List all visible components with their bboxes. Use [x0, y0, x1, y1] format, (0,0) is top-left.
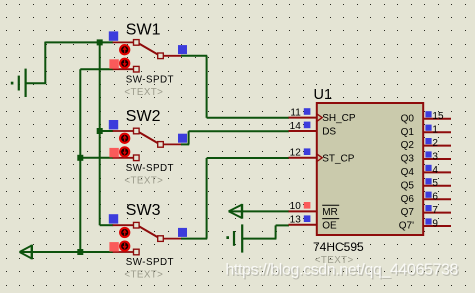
SW1 lower state square (red)	[109, 59, 118, 68]
pin 11 SH_CP stub	[289, 117, 317, 119]
SW1 upper state square (blue)	[109, 31, 118, 40]
svg-text:SW1: SW1	[126, 21, 161, 38]
SW2 pole state square (blue)	[178, 134, 187, 143]
SW2 actuator (up)	[120, 134, 129, 143]
pin 9 state square	[425, 218, 431, 224]
svg-text:2: 2	[432, 138, 438, 149]
svg-text:Q7: Q7	[401, 207, 415, 218]
wire to ST_CP pin	[207, 157, 289, 159]
svg-text:OE: OE	[322, 220, 337, 231]
pin 11 state square	[304, 108, 311, 115]
svg-text:DS: DS	[322, 127, 336, 138]
pin 14 state square	[304, 122, 311, 129]
svg-text:SH_CP: SH_CP	[322, 113, 356, 124]
svg-text:https://blog.csdn.net/qq_44065: https://blog.csdn.net/qq_44065738	[225, 262, 458, 279]
junction rail B / SW2 lower throw	[77, 155, 83, 161]
svg-text:9: 9	[432, 218, 438, 229]
pin 10 state square	[304, 202, 311, 209]
SW3 actuator (up)	[120, 228, 129, 237]
svg-text:Q0: Q0	[401, 113, 415, 124]
wire SW2 pole run	[181, 143, 189, 145]
wire to OE pin	[276, 224, 289, 226]
svg-text:3: 3	[432, 151, 438, 162]
svg-text:<TEXT>: <TEXT>	[124, 87, 163, 98]
junction rail B / ground wire	[77, 249, 83, 255]
SW3 lower state square (red)	[109, 242, 118, 251]
wire SW2 up to DS row	[188, 131, 190, 144]
svg-text:4: 4	[432, 165, 438, 176]
pin 9 Q7' stub	[423, 225, 451, 227]
battery BAT2 (power symbol at OE)	[226, 224, 242, 252]
SW2 lower state square (red)	[109, 148, 118, 157]
wire vertical up to top rail	[44, 42, 46, 84]
clock wedge SH_CP	[316, 113, 322, 121]
ground (arrow terminal, bottom left)	[20, 245, 32, 258]
SW2 upper state square (blue)	[109, 120, 118, 129]
svg-text:U1: U1	[314, 87, 333, 103]
SW1 actuator (down)	[120, 59, 129, 68]
svg-text:ST_CP: ST_CP	[322, 153, 355, 164]
svg-text:Q3: Q3	[401, 154, 415, 165]
ground (arrow terminal at MR)	[229, 205, 242, 218]
wire rail B vertical	[79, 69, 81, 252]
wire ground arrow to rail B	[20, 251, 80, 253]
wire rail B bend to SW1 lower throw	[80, 68, 113, 70]
pin 6 state square	[425, 192, 431, 198]
wire rail A to SW2 upper throw	[100, 130, 114, 132]
svg-text:MR: MR	[322, 207, 338, 218]
SW3 upper throw terminal	[134, 222, 140, 228]
svg-text:15: 15	[432, 111, 444, 122]
wire arrow to MR pin	[229, 210, 289, 212]
svg-text:SW-SPDT: SW-SPDT	[126, 74, 174, 85]
svg-text:Q6: Q6	[401, 194, 415, 205]
pin 1 Q1 stub	[423, 131, 451, 133]
pin 7 Q7 stub	[423, 212, 451, 214]
battery BAT1 (power symbol, left)	[11, 69, 26, 97]
wire rail A bend to SW3 upper throw	[100, 224, 114, 226]
svg-text:6: 6	[432, 192, 438, 203]
SW1 pole state square (blue)	[178, 45, 187, 54]
SW2 actuator (down)	[120, 147, 129, 156]
svg-text:10: 10	[290, 201, 302, 212]
svg-text:74HC595: 74HC595	[313, 240, 364, 254]
SW2 lower throw terminal	[134, 155, 140, 161]
SW1 lower throw terminal	[134, 66, 140, 72]
wire battery to bend	[26, 82, 47, 84]
wire rail B to SW2 lower throw	[80, 157, 113, 159]
junction at SW2 upper throw	[97, 128, 103, 134]
svg-text:Q5: Q5	[401, 180, 415, 191]
svg-text:SW-SPDT: SW-SPDT	[126, 163, 174, 174]
switch SW2 (SW-SPDT)	[113, 131, 182, 158]
pin 3 Q3 stub	[423, 158, 451, 160]
SW3 upper state square (blue)	[109, 214, 118, 223]
pin 1 state square	[425, 125, 431, 131]
svg-text:Q7': Q7'	[399, 221, 414, 232]
SW2 pole terminal	[158, 142, 164, 148]
op-amp U1 74HC595 body	[317, 103, 423, 235]
wire to SH_CP pin	[207, 117, 289, 119]
wire junction to SW3 lower throw	[80, 251, 113, 253]
switch SW1 (SW-SPDT)	[113, 42, 182, 69]
pin 4 Q4 stub	[423, 171, 451, 173]
wire SW3 pole run	[181, 238, 207, 240]
svg-text:1: 1	[432, 125, 438, 136]
wire rail A vertical	[99, 42, 101, 225]
svg-text:Q2: Q2	[401, 140, 415, 151]
pin 6 Q6 stub	[423, 198, 451, 200]
svg-text:Q1: Q1	[401, 127, 415, 138]
pin 5 state square	[425, 178, 431, 184]
SW1 upper throw terminal	[134, 40, 140, 46]
overline OE	[322, 218, 339, 220]
svg-text:7: 7	[432, 205, 438, 216]
overline MR	[322, 204, 339, 206]
svg-text:<TEXT>: <TEXT>	[124, 270, 163, 281]
svg-text:11: 11	[290, 107, 301, 118]
wire SW1 pole run	[181, 55, 207, 57]
wire to DS pin	[189, 130, 289, 132]
clock wedge ST_CP	[316, 154, 322, 162]
pin 2 Q2 stub	[423, 145, 451, 147]
switch SW3 (SW-SPDT)	[113, 225, 182, 252]
SW3 pole terminal	[158, 236, 164, 242]
SW1 pole terminal	[158, 53, 164, 59]
svg-text:13: 13	[290, 215, 302, 226]
svg-text:SW-SPDT: SW-SPDT	[126, 257, 174, 268]
pin 10 MR stub	[289, 210, 317, 212]
wire up to OE row	[275, 225, 277, 238]
SW3 lower throw terminal	[134, 249, 140, 255]
SW2 upper throw terminal	[134, 128, 140, 134]
wire top rail to SW1 upper throw	[45, 41, 113, 43]
wire SW3 up to ST_CP row	[206, 158, 208, 239]
pin 5 Q5 stub	[423, 185, 451, 187]
pin 13 OE stub	[289, 224, 317, 226]
SW1 actuator (up)	[120, 45, 129, 54]
pin 15 Q0 stub	[423, 118, 451, 120]
svg-text:12: 12	[290, 148, 302, 159]
svg-text:<TEXT>: <TEXT>	[124, 175, 163, 186]
pin 4 state square	[425, 165, 431, 171]
pin 3 state square	[425, 151, 431, 157]
wire battery to bend	[242, 238, 276, 240]
pin 12 state square	[304, 148, 311, 155]
pin 14 DS stub	[289, 130, 317, 132]
pin 2 state square	[425, 138, 431, 144]
junction at SW1 upper throw	[97, 39, 103, 45]
SW3 pole state square (blue)	[178, 228, 187, 237]
pin 13 state square	[304, 215, 311, 222]
pin 12 ST_CP stub	[289, 157, 317, 159]
svg-text:5: 5	[432, 178, 438, 189]
pin 15 state square	[425, 111, 431, 117]
svg-text:Q4: Q4	[401, 167, 415, 178]
svg-text:SW3: SW3	[126, 202, 161, 219]
wire SW1 down to SH_CP row	[206, 56, 208, 118]
svg-text:SW2: SW2	[126, 108, 161, 125]
SW3 actuator (down)	[120, 242, 129, 251]
pin 7 state square	[425, 205, 431, 211]
svg-text:14: 14	[290, 121, 302, 132]
